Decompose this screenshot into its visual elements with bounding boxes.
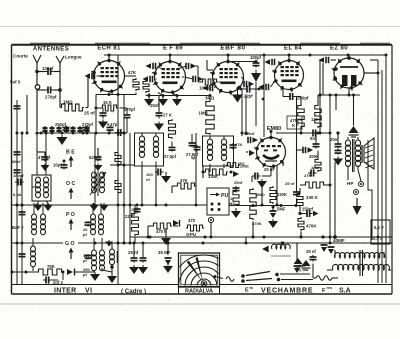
svg-text:G O: G O [65, 241, 75, 247]
svg-text:EL 84: EL 84 [284, 46, 302, 52]
svg-text:P O: P O [66, 212, 75, 218]
svg-text:nf: nf [146, 177, 150, 182]
svg-text:0,5A: 0,5A [13, 192, 22, 197]
svg-text:RADIALVA: RADIALVA [185, 289, 213, 295]
svg-text:Courte: Courte [13, 54, 28, 59]
svg-text:25 nf: 25 nf [306, 249, 316, 254]
svg-text:MΩ: MΩ [229, 201, 236, 206]
svg-text:E: E [245, 288, 249, 294]
svg-text:100: 100 [299, 264, 305, 268]
svg-text:25nf: 25nf [234, 180, 243, 185]
svg-text:220K: 220K [277, 192, 287, 197]
svg-text:250pf: 250pf [55, 122, 67, 127]
svg-text:75K: 75K [47, 264, 55, 269]
svg-text:VECHAMBRE: VECHAMBRE [261, 288, 313, 295]
svg-text:⊙PU: ⊙PU [186, 232, 197, 237]
svg-text:100pf: 100pf [250, 55, 262, 60]
svg-text:5pf: 5pf [191, 156, 197, 160]
svg-text:270pf: 270pf [45, 95, 57, 100]
svg-text:EZ 80: EZ 80 [330, 46, 348, 52]
svg-text:25 nf: 25 nf [84, 111, 95, 116]
svg-text:O C: O C [66, 181, 75, 187]
svg-text:5MF: 5MF [277, 207, 286, 212]
svg-text:6,5 V: 6,5 V [374, 225, 384, 230]
svg-text:25 nf: 25 nf [128, 250, 139, 255]
svg-text:Longue: Longue [65, 55, 82, 60]
svg-text:ANTENNES: ANTENNES [33, 47, 69, 53]
svg-text:EM80: EM80 [267, 126, 281, 132]
svg-text:EBF 80: EBF 80 [220, 45, 245, 52]
svg-text:B E: B E [66, 150, 75, 156]
svg-text:▼47pf: ▼47pf [106, 122, 119, 127]
svg-text:330 K: 330 K [306, 195, 319, 200]
svg-text:35 MF: 35 MF [158, 250, 171, 255]
svg-text:1paf: 1paf [311, 165, 320, 170]
svg-text:INTER: INTER [54, 288, 77, 295]
svg-text:pf: pf [83, 232, 87, 237]
svg-text:47K: 47K [128, 70, 137, 75]
svg-text:470: 470 [188, 218, 196, 223]
svg-text:n f: n f [299, 269, 304, 273]
svg-text:ECH 81: ECH 81 [97, 46, 121, 52]
svg-text:25nf: 25nf [150, 103, 159, 108]
svg-text:MΩ: MΩ [238, 161, 245, 166]
svg-text:pf: pf [83, 272, 87, 277]
svg-text:1MΩ: 1MΩ [256, 192, 266, 197]
svg-text:880nf: 880nf [11, 160, 21, 164]
svg-text:K: K [292, 123, 295, 128]
svg-text:K: K [296, 122, 299, 127]
svg-text:27,5pf: 27,5pf [164, 154, 177, 159]
svg-text:res: res [327, 286, 333, 290]
svg-text:15 K: 15 K [103, 100, 112, 105]
svg-text:22pf: 22pf [244, 94, 253, 99]
svg-text:27K: 27K [235, 142, 242, 147]
svg-text:27K: 27K [304, 173, 311, 178]
svg-text:VI: VI [85, 288, 93, 295]
svg-text:HP: HP [347, 181, 353, 186]
svg-text:PU: PU [221, 193, 228, 199]
svg-text:270pf: 270pf [82, 122, 94, 127]
svg-text:47K: 47K [180, 178, 188, 183]
svg-text:ts: ts [250, 286, 253, 290]
svg-text:270pf: 270pf [124, 107, 136, 112]
svg-text:S.A: S.A [339, 288, 351, 295]
svg-text:E F 89: E F 89 [163, 46, 183, 52]
svg-text:25 nf: 25 nf [285, 181, 295, 186]
svg-text:470K: 470K [306, 224, 317, 229]
svg-text:5nf 5: 5nf 5 [10, 80, 21, 85]
svg-text:27 K: 27 K [163, 113, 172, 118]
svg-text:40MF: 40MF [333, 238, 345, 243]
svg-text:2nf 2: 2nf 2 [53, 280, 63, 285]
svg-text:( Cadre ): ( Cadre ) [121, 288, 146, 295]
svg-text:25 nf: 25 nf [264, 167, 274, 172]
